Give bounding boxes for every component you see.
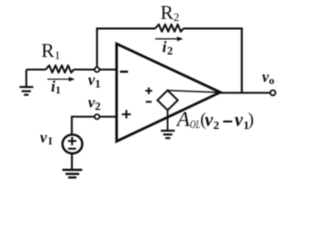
wire <box>71 117 73 135</box>
node v1 <box>88 67 101 90</box>
resistor R1 <box>41 41 74 73</box>
wire <box>71 116 116 118</box>
wire <box>167 110 169 131</box>
wire <box>168 90 220 92</box>
svg-text:R1: R1 <box>41 41 60 62</box>
wire <box>71 153 73 169</box>
ground <box>20 70 34 95</box>
svg-text:R2: R2 <box>160 3 179 24</box>
voltage source vI <box>40 130 82 154</box>
resistor R2 <box>155 3 183 32</box>
svg-text:v: v <box>40 130 48 147</box>
ground <box>161 131 175 138</box>
label AOL(v2-v1) <box>175 107 254 132</box>
current arrow i1 <box>47 77 74 97</box>
wire <box>96 28 156 30</box>
op-amp U1 <box>117 44 221 142</box>
svg-text:): ) <box>248 109 254 129</box>
svg-text:2: 2 <box>213 118 219 132</box>
wire <box>96 29 98 70</box>
ground <box>62 170 82 178</box>
svg-text:vo: vo <box>262 69 275 87</box>
svg-text:v1: v1 <box>88 72 101 91</box>
svg-text:v2: v2 <box>88 95 101 114</box>
current arrow i2 <box>155 37 183 58</box>
svg-text:I: I <box>48 136 52 147</box>
terminal vo <box>262 69 276 95</box>
dependent source diamond <box>145 87 177 110</box>
node v2 <box>88 95 101 120</box>
wire <box>241 28 243 93</box>
wire <box>26 69 46 71</box>
svg-text:A: A <box>175 107 190 131</box>
svg-text:i1: i1 <box>51 79 61 97</box>
svg-text:OL: OL <box>190 119 200 131</box>
wire <box>74 69 116 71</box>
output wire <box>220 92 270 94</box>
svg-text:i2: i2 <box>162 39 173 58</box>
wire <box>183 28 242 30</box>
